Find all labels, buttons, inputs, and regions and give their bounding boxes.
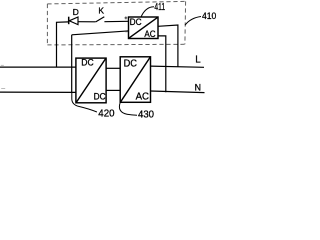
wire: N line bbox=[151, 91, 205, 93]
converter block U420 bbox=[76, 58, 106, 103]
faint polarity tick upper-left bbox=[1, 64, 4, 67]
svg-text:K: K bbox=[98, 6, 104, 16]
svg-text:410: 410 bbox=[202, 11, 216, 22]
svg-text:AC: AC bbox=[136, 91, 149, 102]
leader for 430 bbox=[119, 103, 137, 116]
svg-text:DC: DC bbox=[124, 59, 137, 70]
diode D bbox=[69, 17, 78, 25]
wire: lower left input rail bbox=[0, 91, 76, 93]
faint polarity tick lower-left bbox=[1, 88, 5, 89]
wire: upper link between 420 and 430 bbox=[106, 67, 120, 69]
wire: upper left input rail bbox=[0, 66, 76, 68]
wire: 411 bottom-right corner to N bbox=[158, 36, 166, 92]
wire: diode cathode side to switch left contact bbox=[78, 21, 96, 23]
plus sign at 411 input bbox=[125, 17, 128, 20]
svg-text:420: 420 bbox=[98, 109, 114, 120]
wire: top-left corner down to upper rail bbox=[57, 22, 69, 67]
switch K blade bbox=[96, 17, 105, 22]
svg-text:L: L bbox=[195, 54, 201, 65]
wire: switch right contact to converter 411 bbox=[104, 20, 128, 22]
dashed enclosure box 410 bbox=[47, 1, 185, 45]
leader for 420 bbox=[72, 92, 97, 112]
wire: vertical drop to lower rail bbox=[71, 35, 73, 93]
leader for 410 bbox=[185, 17, 201, 26]
minus tick at 411 lower input bbox=[125, 30, 127, 33]
converter block U411 bbox=[129, 17, 159, 39]
svg-text:D: D bbox=[73, 7, 79, 17]
svg-text:N: N bbox=[195, 82, 201, 92]
svg-text:DC: DC bbox=[94, 92, 106, 103]
svg-text:411: 411 bbox=[154, 2, 165, 13]
wire: 411 right pin to L bbox=[158, 25, 178, 67]
wire: 411 lower-left pin going left bbox=[72, 31, 129, 35]
wire: L line bbox=[151, 66, 205, 67]
converter block U430 bbox=[120, 57, 150, 103]
svg-text:AC: AC bbox=[144, 29, 155, 40]
svg-text:DC: DC bbox=[130, 17, 142, 28]
svg-text:DC: DC bbox=[81, 58, 93, 69]
svg-text:430: 430 bbox=[138, 109, 154, 121]
wire: lower link between 420 and 430 bbox=[106, 89, 120, 91]
leader for 411 bbox=[141, 7, 154, 17]
